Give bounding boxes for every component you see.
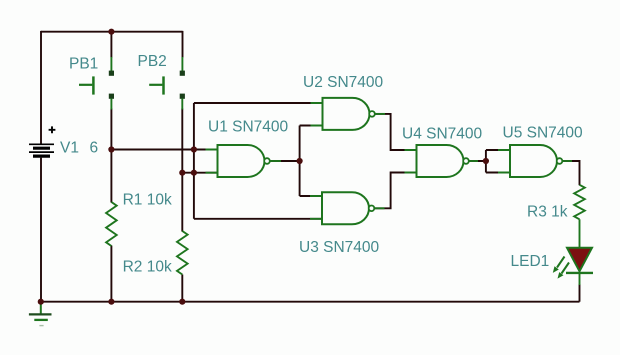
wire to U5 upper input [486,149,510,151]
NAND U1 output stub (green) [270,160,281,162]
svg-text:R3 1k: R3 1k [527,204,568,221]
pushbutton PB1 lower pin [110,98,112,109]
svg-text:U3 SN7400: U3 SN7400 [299,239,380,256]
wire PB1 node down to R1 [110,150,112,203]
wire PB2 drop from top bus corner [182,31,184,58]
NAND gate U5 body [510,145,557,177]
wire top bus [41,31,183,33]
node U4 output [483,158,489,164]
wire row PB1 node to U1 upper input [111,149,217,151]
NAND U2 output bubble [369,111,375,117]
node top bus / PB1 [108,29,114,35]
svg-text:U2 SN7400: U2 SN7400 [303,74,384,91]
pushbutton PB2 lower terminal [180,94,185,99]
resistor R3 zigzag [574,185,585,220]
wire R3 to LED (green) [579,219,581,248]
wire U1 output to node [270,160,300,162]
pushbutton PB1 lower terminal [109,94,114,99]
node PB1 / U1 upper input [108,146,114,152]
wire row U1 lower input [182,172,218,174]
NAND U5 output bubble [557,158,563,164]
ground stem [40,302,42,314]
wire U3 upper input row [300,195,322,197]
wire PB1 upper drop from top bus [110,32,112,58]
LED LED1 arrow 1 head [553,266,559,273]
LED LED1 arrow 1 [557,257,565,268]
wire U2 lower input row [300,125,323,127]
node U1 output [297,158,303,164]
NAND U2 output stub [375,113,385,115]
ground bar 1 [29,313,52,315]
pushbutton PB1 upper pin [110,57,112,71]
wire U2 upper input row [194,102,323,104]
svg-text:PB2: PB2 [138,53,167,70]
wire middle column x194 [193,103,195,219]
wire PB2 lower down through crossing to node [181,109,183,173]
NAND U5 output stub [562,160,572,162]
op... NAND gate U1 body [218,145,265,177]
svg-text:PB1: PB1 [69,55,98,72]
wire PB1 lower to node [110,109,112,150]
wire left column upper (battery +) [40,31,42,144]
pushbutton PB1 actuator stem [79,84,92,86]
pushbutton PB1 upper terminal [109,71,114,76]
ground bar 2 [34,319,48,321]
node mid column lower [191,170,197,176]
wire bottom bus [41,301,580,303]
NAND gate U4 body [417,145,464,177]
node mid column upper [191,146,197,152]
wire R2 bottom to bottom bus [181,275,183,302]
wire U3 output L to U4 lower input [374,173,416,209]
pushbutton PB2 lower pin [181,98,183,109]
wire R1 bottom to bottom bus [110,246,112,302]
NAND U1 output bubble [264,158,270,164]
NAND U2 input stubs [311,103,323,126]
LED LED1 arrow 2 head [558,272,564,279]
NAND U4 output stub [469,160,478,162]
pushbutton PB2 upper pin [181,57,183,71]
NAND U4 input stubs [405,150,417,173]
LED LED1 cathode bar [566,272,593,274]
wire U4 output to node [468,160,486,162]
wire left column lower (battery -) [40,158,42,302]
pushbutton PB2 upper terminal [180,71,185,76]
resistor R1 zigzag [106,202,117,246]
battery V1 plate thick 2 [33,155,50,158]
NAND gate U2 body [323,98,370,130]
LED LED1 lead below [579,273,581,285]
svg-text:R2 10k: R2 10k [123,259,172,276]
NAND U3 input stubs [310,196,322,219]
pushbutton PB2 actuator bar [162,76,165,94]
battery V1 plate thick 1 [33,147,50,150]
LED LED1 triangle [567,248,592,271]
wire U4 node split column [485,150,487,173]
svg-text:V1 6: V1 6 [60,139,98,156]
NAND U3 output bubble [369,206,375,212]
wire U5 output corner down [562,161,579,185]
battery V1 plus sign [49,126,56,133]
battery V1 plate long 1 [29,143,54,145]
node R1 bottom [108,299,114,305]
NAND U1 input stubs (green) [206,150,218,173]
node PB2 / U1 lower input [179,170,185,176]
resistor R2 zigzag [177,231,188,275]
svg-text:U4 SN7400: U4 SN7400 [402,126,483,143]
pushbutton PB1 actuator bar [92,76,95,94]
wire U3 lower input row [194,218,322,220]
wire U1 output feedback column [299,126,301,197]
NAND U3 output stub [374,207,384,209]
NAND gate U3 body [322,192,369,224]
ground bar 3 [39,325,43,327]
pushbutton PB2 actuator stem [149,84,162,86]
wire PB2 node down to R2 [181,173,183,232]
LED LED1 arrow 2 [562,263,570,274]
wire to U5 lower input [486,172,510,174]
node R2 bottom [179,299,185,305]
NAND U4 output bubble [463,158,469,164]
battery V1 plate long 2 [29,151,54,153]
node ground [38,299,44,305]
NAND U5 input stubs [498,150,510,173]
svg-text:U1 SN7400: U1 SN7400 [208,118,289,135]
wire U2 output L to U4 upper input [375,114,417,150]
svg-text:R1 10k: R1 10k [123,192,172,209]
wire LED cathode to bottom bus [579,284,581,302]
svg-text:U5 SN7400: U5 SN7400 [503,125,584,142]
svg-text:LED1: LED1 [511,253,550,270]
